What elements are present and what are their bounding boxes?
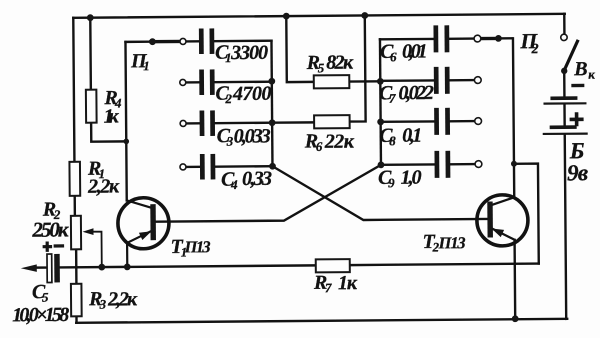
svg-text:1,0: 1,0 bbox=[400, 167, 421, 189]
svg-text:П13: П13 bbox=[438, 233, 466, 252]
svg-text:3: 3 bbox=[99, 297, 107, 312]
svg-text:9в: 9в bbox=[567, 160, 588, 185]
svg-text:0,1: 0,1 bbox=[402, 125, 422, 147]
svg-text:2,2к: 2,2к bbox=[87, 175, 120, 197]
svg-text:7: 7 bbox=[325, 280, 332, 295]
svg-text:10,0×158: 10,0×158 bbox=[12, 304, 69, 326]
svg-text:П13: П13 bbox=[184, 237, 211, 256]
svg-text:5: 5 bbox=[42, 290, 49, 305]
svg-text:2: 2 bbox=[224, 91, 232, 106]
svg-text:8: 8 bbox=[389, 133, 396, 148]
svg-text:2: 2 bbox=[530, 42, 538, 57]
svg-text:4700: 4700 bbox=[232, 83, 272, 105]
svg-text:6: 6 bbox=[390, 49, 397, 64]
svg-text:82к: 82к bbox=[326, 52, 354, 74]
svg-text:7: 7 bbox=[389, 91, 396, 106]
svg-text:1к: 1к bbox=[103, 105, 119, 127]
svg-text:к: к bbox=[588, 67, 595, 82]
svg-text:5: 5 bbox=[318, 60, 325, 75]
svg-text:0,01: 0,01 bbox=[402, 40, 428, 62]
svg-text:250к: 250к bbox=[31, 217, 70, 241]
svg-text:В: В bbox=[573, 58, 588, 80]
svg-text:3: 3 bbox=[226, 134, 234, 149]
svg-text:1: 1 bbox=[143, 58, 150, 73]
svg-text:0,33: 0,33 bbox=[242, 168, 272, 190]
svg-text:22к: 22к bbox=[324, 131, 355, 153]
svg-text:1к: 1к bbox=[338, 272, 358, 294]
svg-text:9: 9 bbox=[388, 175, 395, 190]
svg-text:6: 6 bbox=[316, 139, 323, 154]
svg-text:0,033: 0,033 bbox=[234, 125, 271, 147]
svg-text:0,022: 0,022 bbox=[398, 82, 434, 104]
svg-text:2,2к: 2,2к bbox=[107, 288, 138, 310]
svg-text:3300: 3300 bbox=[230, 42, 268, 64]
svg-text:4: 4 bbox=[230, 177, 238, 192]
